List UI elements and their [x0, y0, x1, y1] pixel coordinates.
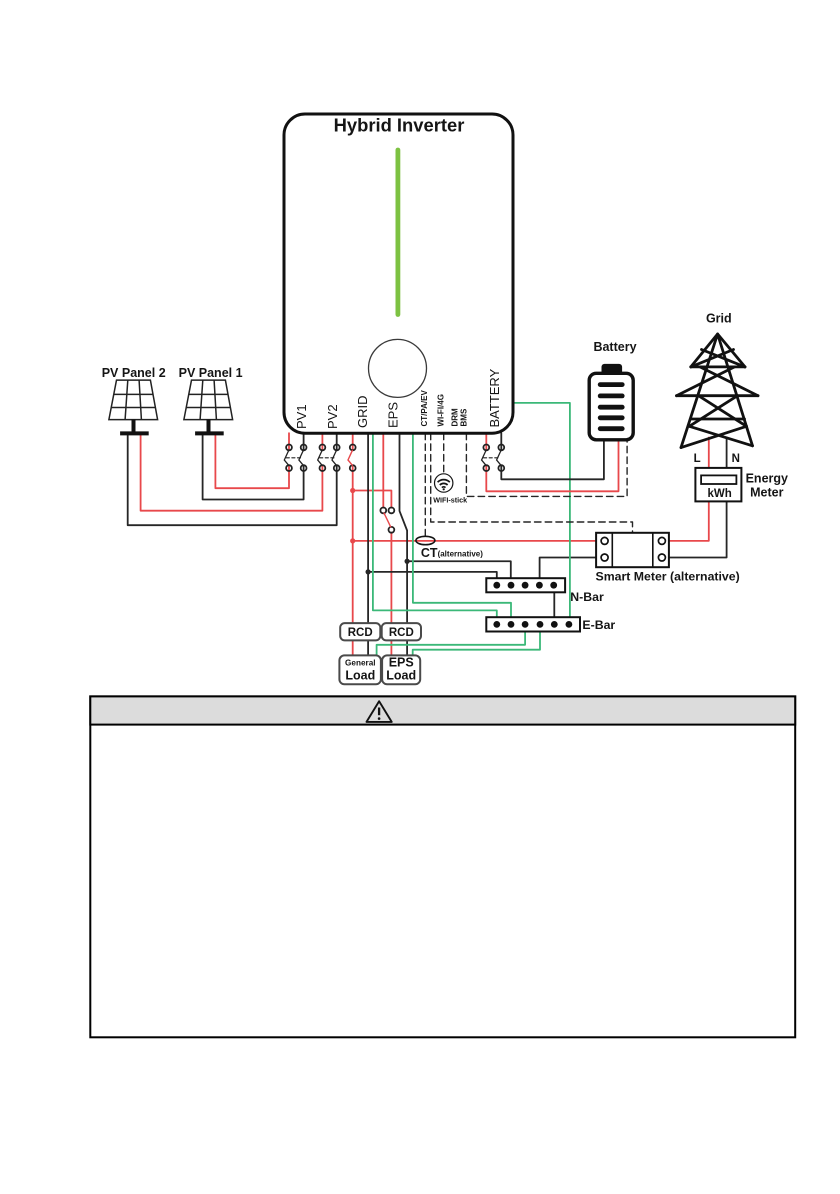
wire transfer switch output (red) to EPS RCD	[390, 533, 392, 656]
wire GRID L stub (red)	[352, 433, 354, 450]
N-Bar busbar	[486, 578, 565, 592]
svg-text:PV Panel 1: PV Panel 1	[179, 366, 243, 380]
svg-text:General: General	[345, 659, 376, 668]
DC switch S2 pole L (PV2) terminals	[320, 445, 326, 451]
inverter fan circle	[369, 339, 427, 397]
smart meter M2 terminals	[601, 537, 665, 561]
wire BATTERY negative stub (black)	[500, 433, 502, 450]
wire PV2 positive stub at inverter port	[321, 433, 323, 450]
wire PV1 negative (black) panel1 to switch	[203, 434, 304, 500]
battery BT1 cap	[602, 364, 623, 375]
wire PV2 negative (black) panel2 to switch	[128, 434, 337, 526]
battery switch S5 pole + blade	[482, 451, 486, 466]
svg-text:L: L	[694, 453, 701, 465]
svg-text:DRM: DRM	[451, 408, 460, 427]
svg-text:BMS: BMS	[460, 408, 469, 426]
wire red L bus to smart meter	[353, 540, 596, 542]
svg-text:Load: Load	[386, 669, 416, 683]
dashed comm Wi-Fi/4G port to WiFi stick	[443, 433, 445, 473]
op-unit U1 hybrid inverter enclosure	[284, 114, 513, 433]
wire E-Bar to General Load PE (green)	[377, 632, 525, 657]
warning triangle icon	[367, 701, 392, 722]
wire N-Bar to E-Bar link	[553, 592, 555, 617]
wire inverter PE (green) right side to E-Bar	[513, 403, 570, 617]
junction node red at GRID L / L bus	[350, 538, 355, 543]
DC switch S2 pole N (PV2) terminals	[334, 445, 340, 451]
svg-text:Meter: Meter	[750, 486, 783, 500]
junction node black at GRID N / N-Bar branch	[366, 569, 371, 574]
svg-text:PV2: PV2	[325, 404, 340, 429]
svg-text:Battery: Battery	[593, 340, 636, 354]
RCD breaker 2	[382, 623, 421, 640]
svg-text:EPS: EPS	[389, 655, 414, 669]
battery switch S5 pole + terminals	[483, 445, 489, 451]
wire PV1 positive stub at inverter port	[288, 433, 290, 450]
wire GRID L (red) switch down to General Load	[352, 465, 354, 656]
wire E-Bar to EPS Load PE (green)	[413, 632, 540, 657]
AC switch S3 (GRID L) terminals	[350, 445, 356, 451]
transfer switch S4 blade (red)	[384, 513, 391, 527]
energy meter M1 display	[701, 475, 736, 484]
wire EPS PE (green) to E-Bar	[413, 433, 511, 617]
wire BATTERY negative (black) switch to battery	[501, 440, 604, 480]
svg-text:Grid: Grid	[706, 312, 732, 326]
svg-text:Smart Meter (alternative): Smart Meter (alternative)	[596, 570, 740, 584]
wire PV2 positive (red) panel2 to switch	[141, 434, 323, 511]
DC switch S1 pole L (PV1) terminals	[286, 445, 292, 451]
wire GRID N (black) down to General Load	[367, 433, 369, 656]
battery switch S5 pole - blade	[497, 451, 501, 466]
junction node red at GRID L / transfer branch	[350, 488, 355, 493]
warning note table header band	[90, 696, 795, 724]
wire EPS N (black) with jog down to EPS Load	[400, 433, 408, 656]
DC switch S2 linkage (dashed)	[320, 457, 335, 459]
battery BT1 cell bars	[598, 382, 625, 431]
energy meter M1 box	[695, 468, 741, 502]
battery switch S5 pole - terminals	[498, 445, 504, 451]
DC switch S1 pole N (PV1) terminals	[301, 445, 307, 451]
junction node black at EPS N / N-Bar branch	[405, 559, 410, 564]
svg-text:CT/PA/EV: CT/PA/EV	[420, 390, 429, 427]
wire grid tower N (black) to energy meter to smart meter	[669, 438, 727, 558]
wire PV1 positive (red) panel1 to switch	[215, 434, 289, 489]
solar panel PV2 icon	[109, 380, 158, 420]
wire PV1 negative stub at inverter port	[303, 433, 305, 450]
grid transmission tower icon	[677, 334, 759, 448]
wire PV2 negative stub at inverter port	[336, 433, 338, 450]
battery switch S5 linkage (dashed)	[484, 457, 499, 459]
wire grid tower L (red) to energy meter to smart meter	[669, 438, 709, 541]
WiFi stick icon	[435, 474, 453, 492]
svg-text:E-Bar: E-Bar	[582, 618, 615, 632]
solar panel PV1 icon	[184, 380, 233, 420]
E-Bar busbar	[486, 617, 580, 631]
solar panel PV1 stand	[195, 420, 224, 434]
svg-text:Energy: Energy	[746, 471, 788, 485]
svg-text:N-Bar: N-Bar	[570, 590, 604, 604]
warning note table body	[90, 696, 795, 1037]
svg-text:RCD: RCD	[389, 627, 414, 639]
svg-text:RCD: RCD	[348, 627, 373, 639]
CT current transformer coil (alternative)	[416, 536, 435, 544]
wire GRID PE (green) to E-Bar	[373, 433, 497, 617]
solar panel PV2 stand	[120, 420, 149, 434]
RCD breaker 1	[340, 623, 380, 640]
svg-text:BATTERY: BATTERY	[487, 368, 502, 427]
DC switch S2 pole L blade	[318, 451, 322, 466]
dashed comm BMS port to battery	[466, 433, 627, 496]
wire BATTERY positive (red) switch to battery	[486, 440, 618, 492]
DC switch S1 pole L blade	[284, 451, 288, 466]
DC switch S1 linkage (dashed)	[286, 457, 301, 459]
svg-text:kWh: kWh	[707, 488, 731, 500]
EPS Load box	[382, 655, 420, 684]
transfer switch S4 terminals	[380, 508, 386, 514]
DC switch S2 pole N blade	[332, 451, 336, 466]
wire EPS L stub (red) to transfer switch	[382, 433, 384, 507]
DC switch S1 pole N blade	[299, 451, 303, 466]
General Load box	[339, 655, 381, 684]
wire red branch GRID L to transfer switch	[353, 491, 392, 508]
dashed comm CT/PA/EV port to smart meter	[431, 433, 633, 533]
wire GRID N branch to N-Bar	[368, 572, 497, 578]
svg-text:WI-FI/4G: WI-FI/4G	[436, 394, 445, 426]
inverter status LED bar (green)	[395, 150, 400, 315]
svg-text:GRID: GRID	[355, 396, 370, 429]
svg-text:PV Panel 2: PV Panel 2	[102, 366, 166, 380]
wire EPS N branch to N-Bar	[407, 561, 511, 578]
wire smart meter N to N-Bar	[540, 558, 597, 579]
smart meter M2 body	[596, 533, 669, 567]
wire BATTERY positive stub (red)	[485, 433, 487, 450]
svg-text:Load: Load	[345, 668, 375, 682]
svg-text:PV1: PV1	[294, 404, 309, 429]
svg-text:EPS: EPS	[385, 402, 400, 428]
AC switch S3 blade (red)	[348, 451, 352, 466]
dashed comm CT/PA/EV port to CT coil	[424, 433, 426, 536]
battery BT1 body	[589, 373, 633, 440]
svg-text:N: N	[732, 453, 740, 465]
svg-text:WIFI-stick: WIFI-stick	[433, 496, 467, 505]
svg-text:Hybrid Inverter: Hybrid Inverter	[334, 114, 465, 135]
